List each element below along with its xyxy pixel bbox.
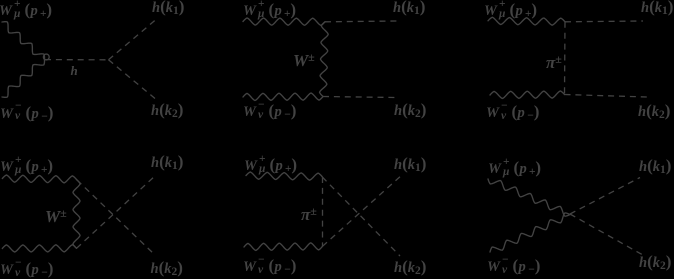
label h(k1) d6: [639, 160, 671, 175]
h(k1) line (d3): [565, 20, 643, 23]
label W-(p-) d2: [243, 103, 297, 120]
label h(k1) d3: [641, 1, 673, 16]
label W-pm d2: [293, 52, 315, 69]
label h(k1) d1: [152, 1, 184, 16]
label W-pm d4: [45, 208, 67, 225]
label W+(p+) d2: [243, 2, 296, 19]
W+ boson line (d2): [243, 18, 325, 25]
h(k1) line (d1): [109, 20, 157, 60]
h(k2) line (d3): [565, 95, 648, 98]
h(k2) line (d6): [570, 214, 642, 255]
label W-(p-) d3: [486, 104, 540, 121]
W exchange line (d4): [73, 180, 80, 249]
label W-(p-) d5: [243, 258, 297, 275]
W- boson line (d2): [243, 93, 323, 100]
label W+(p+) d4: [0, 158, 53, 175]
label h(k1) d4: [151, 156, 183, 171]
label h(k2) d1: [151, 104, 183, 119]
h(k2) line (d1): [109, 60, 156, 99]
W+ boson line (d4): [2, 175, 76, 183]
label h(k2) d4: [151, 262, 183, 277]
label pi-pm d5: [301, 206, 317, 223]
h(k1) line (d2): [325, 20, 397, 23]
label W-(p-) d4: [0, 261, 54, 278]
W+ boson line (d6): [488, 179, 570, 216]
label h(k2) d5: [394, 261, 426, 276]
h(k1) line (d5): [323, 174, 404, 246]
pion exchange line (d5): [322, 177, 324, 246]
label W-(p-) d6: [487, 258, 541, 275]
h(k2) line (d4): [77, 180, 155, 255]
W- boson line (d6): [490, 213, 570, 252]
h(k1) line (d6): [570, 178, 640, 215]
label W+(p+) d6: [488, 160, 541, 177]
W- boson line (d3): [490, 91, 565, 99]
h propagator (d1): [45, 59, 109, 61]
vertex loop at WWh vertex (d1): [43, 54, 49, 60]
h(k2) line (d2): [323, 97, 396, 98]
label W+(p+) d1: [0, 2, 52, 19]
W+ boson line (d3): [488, 17, 565, 25]
label h(k1) d2: [393, 1, 425, 16]
W- boson line (d1): [2, 60, 45, 98]
pion exchange line (d3): [564, 22, 567, 95]
h(k2) line (d5): [322, 177, 400, 256]
label W+(p+) d3: [484, 2, 537, 19]
label W-(p-) d1: [0, 105, 54, 122]
W- boson line (d5): [244, 243, 323, 251]
W- boson line (d4): [2, 245, 76, 252]
label h(k2) d3: [638, 105, 670, 120]
label W+(p+) d5: [244, 157, 297, 174]
label h(k2) d6: [639, 256, 671, 271]
h(k1) line (d4): [77, 175, 157, 248]
W+ boson line (d5): [246, 172, 322, 180]
label h(k1) d5: [394, 158, 426, 173]
W exchange line (d2): [320, 22, 329, 97]
label pi-pm d3: [546, 54, 562, 71]
W+ boson line (d1): [2, 22, 45, 60]
label h d1: [71, 64, 78, 77]
label h(k2) d2: [394, 104, 426, 119]
